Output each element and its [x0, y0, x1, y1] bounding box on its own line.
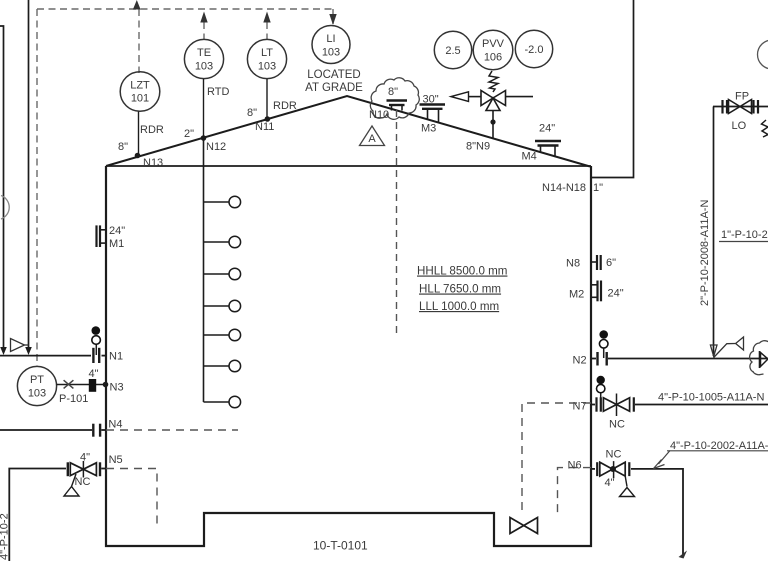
svg-text:AT GRADE: AT GRADE: [305, 82, 363, 94]
svg-text:106: 106: [484, 52, 502, 64]
svg-text:2": 2": [184, 128, 194, 140]
svg-text:N3: N3: [110, 382, 124, 394]
internal distributor standpipe from N12: [204, 138, 241, 408]
svg-text:-2.0: -2.0: [525, 44, 544, 56]
top instrument signal dashed boundary: [37, 9, 333, 366]
arrow down into LI: [329, 14, 336, 25]
nozzle N2 outlet pipe: [573, 352, 768, 367]
svg-text:NC: NC: [606, 449, 622, 461]
internal dashed from N6: [558, 468, 592, 517]
svg-text:103: 103: [322, 47, 340, 59]
drain stem + open triangle: [72, 474, 77, 487]
svg-text:RDR: RDR: [140, 124, 164, 136]
svg-text:LO: LO: [732, 120, 747, 132]
nozzle N4 pipe: [0, 419, 238, 437]
off-page lines left with arrows onto pipe: [0, 0, 32, 355]
svg-text:N2: N2: [573, 355, 587, 367]
svg-text:2"-P-10-2008-A11A-N: 2"-P-10-2008-A11A-N: [699, 200, 711, 306]
svg-text:8": 8": [247, 107, 257, 119]
pipe label 4"-P-10-2002 with leader: [654, 440, 768, 469]
manway M2: [569, 281, 624, 302]
svg-text:103: 103: [195, 61, 213, 73]
svg-text:HLL 7650.0 mm: HLL 7650.0 mm: [419, 283, 501, 296]
svg-text:M2: M2: [569, 289, 584, 301]
svg-text:RTD: RTD: [207, 86, 229, 98]
instrument LT-103: [247, 39, 286, 121]
nozzle N10 with revision cloud: [369, 78, 419, 333]
svg-text:N1: N1: [109, 351, 123, 363]
svg-text:A: A: [368, 133, 376, 145]
svg-text:FP: FP: [735, 91, 749, 103]
internal dashed from N7 to sump: [522, 403, 591, 516]
partial instrument circle at left edge: [1, 196, 9, 220]
svg-text:LLL 1000.0 mm: LLL 1000.0 mm: [419, 300, 499, 313]
left feed pipe into N1: [0, 348, 123, 363]
PT impulse line to N3: [57, 368, 124, 394]
svg-text:8"N9: 8"N9: [466, 141, 490, 153]
instrument circle 2.5 setting: [434, 31, 471, 68]
svg-text:M3: M3: [421, 123, 436, 135]
svg-text:P-101: P-101: [59, 393, 88, 405]
instrument LI-103: [305, 26, 363, 95]
level texts: [417, 265, 507, 314]
svg-text:1": 1": [593, 182, 603, 194]
svg-text:N13: N13: [143, 157, 163, 169]
nozzle N6 with gate valve: [568, 449, 688, 559]
spectacle blind at N2: [599, 330, 608, 358]
svg-text:N10: N10: [369, 109, 389, 121]
nozzles N14-N18 1" riser line: [542, 0, 634, 194]
arrow up off-page at LZT branch: [133, 0, 141, 10]
svg-text:LI: LI: [326, 33, 335, 45]
svg-text:RDR: RDR: [273, 100, 297, 112]
valve FP/LO top right: [713, 91, 768, 133]
svg-text:PT: PT: [30, 374, 44, 386]
svg-text:M1: M1: [109, 238, 124, 250]
svg-text:N14-N18: N14-N18: [542, 182, 586, 194]
svg-text:103: 103: [258, 61, 276, 73]
instrument LZT-101: [120, 72, 160, 159]
svg-text:PVV: PVV: [482, 38, 505, 50]
2" tie-in arrow and spec symbol: [710, 337, 743, 358]
drain line and valve N5: [9, 452, 157, 561]
svg-text:N5: N5: [109, 454, 123, 466]
svg-text:M4: M4: [522, 151, 537, 163]
arrow up TE signal: [200, 12, 207, 23]
arrow up LT signal: [263, 12, 270, 23]
svg-text:8": 8": [118, 141, 128, 153]
svg-text:4"-P-10-2: 4"-P-10-2: [0, 513, 11, 560]
spring above PVV valve: [489, 71, 498, 92]
svg-text:24": 24": [109, 225, 125, 237]
svg-text:N12: N12: [206, 141, 226, 153]
svg-text:LT: LT: [261, 47, 273, 59]
tank 10-T-0101 shell: [106, 96, 591, 546]
pipe label 1"-P-10-2...: [719, 229, 768, 242]
svg-text:30": 30": [423, 94, 439, 106]
svg-text:N8: N8: [566, 258, 580, 270]
nozzle M4: [522, 123, 562, 163]
svg-text:TE: TE: [197, 47, 211, 59]
nozzle M3: [420, 94, 446, 135]
svg-text:24": 24": [539, 123, 555, 135]
svg-text:N6: N6: [568, 460, 582, 472]
triangle marker A: [360, 126, 385, 146]
svg-text:2.5: 2.5: [445, 45, 460, 57]
spectacle blind at N1: [92, 326, 101, 355]
svg-text:4"-P-10-1005-A11A-N: 4"-P-10-1005-A11A-N: [658, 392, 764, 404]
svg-text:LZT: LZT: [130, 80, 150, 92]
spectacle blind at N7: [597, 376, 605, 404]
instrument PT-103: [17, 366, 88, 405]
svg-text:NC: NC: [609, 419, 625, 431]
svg-text:HHLL 8500.0 mm: HHLL 8500.0 mm: [417, 265, 507, 278]
svg-text:1"-P-10-2: 1"-P-10-2: [721, 229, 768, 241]
labels roof left: [118, 86, 297, 169]
internal eductor bowtie in sump: [510, 518, 538, 534]
nozzle N7 with gate valve: [573, 394, 768, 431]
internal dashed from N5: [106, 469, 157, 526]
svg-text:LOCATED: LOCATED: [307, 69, 360, 81]
svg-text:4": 4": [80, 452, 90, 464]
svg-text:101: 101: [131, 93, 149, 105]
instrument circle -2.0 setting: [515, 30, 552, 67]
2" line from FP valve down to N2 pipe: [699, 107, 714, 357]
instrument PVV-106: [473, 30, 513, 70]
svg-text:N4: N4: [108, 419, 122, 431]
svg-text:6": 6": [606, 257, 616, 269]
partial instrument circle at top right edge: [758, 40, 768, 69]
small valve closed (solid): [89, 379, 96, 392]
instrument TE-103: [184, 39, 223, 140]
svg-text:10-T-0101: 10-T-0101: [313, 539, 368, 553]
svg-text:NC: NC: [75, 476, 91, 488]
nozzle N8: [566, 255, 616, 270]
svg-text:8": 8": [388, 86, 398, 98]
flow arrow open triangle: [11, 339, 25, 352]
partial spring symbol at right edge: [762, 120, 768, 137]
revision cloud with eductor at right edge: [750, 341, 768, 375]
vent open arrow left: [451, 92, 469, 102]
close nipple X: [64, 380, 74, 388]
manway M1: [97, 225, 126, 250]
svg-text:4": 4": [605, 477, 615, 489]
svg-text:24": 24": [608, 288, 624, 300]
svg-text:N11: N11: [255, 121, 274, 133]
svg-text:103: 103: [28, 388, 46, 400]
svg-text:4": 4": [89, 368, 99, 380]
gate valve N5: [70, 463, 96, 476]
pressure-vacuum valve PVV body: [451, 91, 533, 153]
